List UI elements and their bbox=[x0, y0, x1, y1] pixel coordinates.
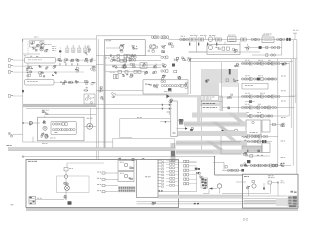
mic connector stub bbox=[11, 135, 13, 137]
audio IC box bbox=[246, 120, 261, 135]
wire stub row1 bbox=[13, 59, 25, 61]
input stub row4 bbox=[97, 189, 99, 192]
filter FL5 bbox=[64, 80, 66, 82]
wire x-long bbox=[177, 135, 222, 137]
frame line 2 bbox=[243, 195, 288, 197]
row71 cluster b bbox=[154, 70, 156, 73]
wire after box2 bbox=[54, 81, 88, 83]
row71 rect pair bbox=[134, 70, 137, 73]
label bbox=[110, 71, 112, 74]
vertical join x222 bbox=[221, 97, 223, 111]
stub bbox=[283, 122, 284, 125]
supply band left bbox=[23, 104, 97, 107]
tuned pair 2nd bbox=[276, 38, 278, 40]
wire q41 chain bbox=[65, 171, 67, 175]
mute feed elbow bbox=[213, 161, 224, 163]
sq box bbox=[84, 94, 95, 104]
resistor bbox=[222, 47, 225, 50]
components row 5 bbox=[241, 115, 243, 117]
connector stub P1 bbox=[8, 59, 10, 62]
det cluster e bbox=[94, 81, 95, 84]
mid cluster x85 bbox=[86, 53, 87, 56]
buffer cluster in box bbox=[154, 85, 156, 87]
transistor Q1 mixer bbox=[120, 46, 124, 50]
filter FL4 bbox=[77, 59, 79, 61]
wire ctrl a bbox=[23, 141, 113, 143]
tick above IC bbox=[169, 111, 171, 115]
arrow wire out of IC bbox=[177, 128, 187, 130]
filter FL1 bbox=[58, 59, 60, 61]
box label bbox=[106, 39, 108, 42]
wire reg out bbox=[270, 124, 280, 126]
supply line B bbox=[137, 203, 299, 205]
vco chain row1 bbox=[52, 123, 54, 125]
mixer cluster mid bbox=[229, 97, 231, 98]
vertical col right bbox=[238, 83, 240, 116]
left col row2 bbox=[162, 65, 164, 68]
trimmer pair bbox=[114, 74, 116, 79]
gray block bbox=[276, 198, 292, 206]
components row 1 bbox=[241, 62, 243, 64]
filter FL2 bbox=[66, 59, 67, 61]
resistor R3 bbox=[117, 55, 119, 58]
IF takeoff cluster bbox=[114, 95, 115, 98]
cluster mid upper bbox=[236, 63, 238, 65]
coax jack J1 bbox=[154, 35, 157, 38]
row3 labels bbox=[245, 92, 247, 95]
row1 labels bbox=[245, 59, 247, 62]
wire mixer out bbox=[96, 55, 161, 57]
row65 cluster c bbox=[133, 64, 135, 67]
label under box bbox=[50, 137, 53, 140]
cluster row2 a bbox=[27, 75, 28, 76]
vertical bus pair a bbox=[95, 36, 97, 160]
bias cluster bbox=[66, 183, 68, 185]
resistor R24 bbox=[125, 70, 128, 73]
filter FL7 bbox=[75, 80, 76, 81]
dark block right of IC bbox=[179, 119, 183, 125]
cap on mute row bbox=[225, 166, 227, 169]
shield label box bbox=[242, 83, 268, 89]
RX unit box left edge bbox=[189, 58, 191, 95]
filter L3 bbox=[215, 38, 218, 41]
left col row3 bbox=[161, 70, 163, 72]
wire into IC left bbox=[160, 121, 171, 123]
label above block bbox=[34, 36, 37, 39]
frame label CONTROL UNIT bbox=[28, 160, 31, 163]
hatch filter box bbox=[242, 146, 262, 153]
antenna terminal bbox=[294, 33, 296, 39]
stub labels right column bbox=[281, 75, 283, 78]
resistor bbox=[266, 46, 268, 49]
routing box above band bbox=[113, 137, 175, 139]
sub box outline bbox=[30, 41, 45, 47]
wire into frame bbox=[222, 193, 270, 195]
row58 cluster b bbox=[176, 60, 178, 62]
filter L4 bbox=[241, 38, 243, 41]
highlight diagonal D3 bbox=[227, 113, 244, 122]
wire lower bbox=[222, 107, 241, 109]
wire row 4 bbox=[241, 107, 295, 109]
wire end tick bbox=[21, 39, 23, 42]
IF transformer T1 bbox=[66, 48, 69, 52]
rect row80 bbox=[226, 79, 229, 81]
wire 4th row bbox=[115, 67, 161, 69]
wire sub chain 3 bbox=[252, 54, 282, 56]
wire 2nd row bbox=[112, 60, 161, 62]
wire elbow to final frame bbox=[214, 157, 216, 175]
wire audio bottom chain bbox=[240, 165, 291, 167]
wire vco out bbox=[84, 125, 96, 127]
cluster row1 c bbox=[46, 67, 48, 69]
row65 cluster a bbox=[115, 66, 117, 68]
row75 cluster a bbox=[126, 73, 128, 76]
wire mute row bbox=[222, 169, 243, 171]
wire entering frame bbox=[236, 181, 246, 183]
left col row5 bbox=[161, 80, 163, 82]
resistor R23 bbox=[118, 70, 122, 73]
left col row4 bbox=[162, 74, 164, 77]
vertical col left bbox=[201, 100, 203, 150]
filter cluster in box bbox=[134, 47, 136, 50]
wire drop x240 bbox=[239, 42, 241, 45]
supply line A bbox=[137, 201, 299, 203]
wire row 3 bbox=[241, 96, 295, 98]
bus wire B1 bbox=[288, 62, 290, 116]
mid arrow cluster bbox=[172, 64, 175, 67]
junction dot bbox=[214, 156, 215, 157]
bias resistor stub 1 bbox=[189, 43, 190, 46]
highlight diagonal D2 bbox=[205, 141, 224, 150]
RX mode dark label bbox=[229, 69, 231, 74]
ground marks bbox=[24, 54, 26, 57]
dark cap in box bbox=[168, 88, 171, 91]
pin label column bbox=[158, 159, 160, 162]
test point cluster row1 bbox=[282, 64, 284, 65]
input stub row3 bbox=[97, 183, 99, 186]
amp cluster bbox=[85, 90, 87, 92]
transistor Q61 bbox=[252, 184, 256, 188]
pairs on mute row bbox=[227, 169, 229, 171]
arrow wire bbox=[209, 188, 217, 190]
svg-text:2-2: 2-2 bbox=[243, 218, 248, 222]
ground symbol marks bbox=[11, 203, 14, 206]
volume cluster bbox=[65, 194, 66, 197]
buffer transistor big Q32 bbox=[87, 123, 93, 129]
highlight col down bbox=[219, 95, 222, 111]
circle on mute row bbox=[236, 169, 239, 172]
highlight diagonal D1 bbox=[211, 122, 230, 132]
label bbox=[52, 45, 55, 48]
capacitor C11 bbox=[33, 48, 35, 51]
bottom gray band bbox=[26, 209, 298, 211]
left col row1 bbox=[161, 56, 163, 58]
bus wire B5 bbox=[296, 40, 298, 174]
gray bar with dark blob bbox=[171, 143, 176, 162]
wire dashed vertical 2 bbox=[59, 48, 61, 58]
route end marks bbox=[159, 190, 161, 191]
final unit frame bbox=[243, 174, 299, 208]
oscillator box Y1 bbox=[143, 80, 188, 94]
input stub row2 bbox=[97, 177, 99, 180]
vertical bus pair b bbox=[97, 39, 99, 160]
wire stub row3 bbox=[13, 71, 26, 73]
frame line 3 bbox=[243, 198, 288, 200]
wire row2 long bbox=[26, 65, 97, 67]
highlight band B1 bbox=[192, 113, 247, 118]
cluster below chain start bbox=[170, 43, 172, 45]
osc cluster bbox=[199, 176, 201, 178]
wire IF in b bbox=[26, 108, 172, 110]
cluster after arrow bbox=[190, 128, 192, 131]
row5 labels bbox=[246, 111, 249, 114]
cluster lower bbox=[228, 107, 230, 110]
reg box bbox=[262, 120, 270, 132]
row58 cluster a bbox=[111, 60, 113, 62]
bus elbow tick bbox=[289, 95, 297, 97]
wire RF chain bbox=[168, 39, 296, 41]
highlight col v1 bbox=[197, 95, 200, 122]
band corner marks bbox=[160, 196, 162, 198]
bias tick 2 bbox=[205, 36, 207, 40]
xtal osc box B bbox=[118, 172, 134, 182]
wire IF amp row 1 bbox=[241, 63, 289, 65]
wire mic in bbox=[23, 122, 40, 124]
crystal X2 bbox=[259, 46, 262, 49]
dark cap under mixer bbox=[41, 135, 42, 137]
arrow mark bbox=[241, 169, 244, 172]
resistor R13 bbox=[45, 50, 47, 52]
audio amp dark stack bbox=[202, 179, 204, 181]
wire keyboard top bbox=[159, 162, 197, 164]
driver box bbox=[262, 143, 270, 153]
wire inter-box vertical bbox=[27, 63, 29, 80]
wire row 7 bbox=[241, 141, 272, 143]
transformer label bbox=[37, 197, 39, 200]
wire sub chain 2 bbox=[244, 47, 282, 49]
shield box 2nd filter bank bbox=[25, 80, 55, 86]
wire vco top bbox=[45, 114, 97, 116]
crystal filter XF2 bbox=[286, 38, 288, 41]
wire bus elbow bbox=[96, 64, 103, 66]
bias resistor stub 2 bbox=[198, 43, 199, 46]
components row 4 bbox=[241, 106, 243, 108]
highlight band IF path bbox=[201, 69, 238, 83]
crystal filter FL22 labeled bbox=[262, 37, 274, 42]
frame interior verticals bbox=[248, 190, 250, 197]
transistor under box Q33 bbox=[45, 133, 47, 136]
components row 7 bbox=[245, 140, 247, 142]
IF transformer T3 bbox=[78, 48, 81, 52]
bandpass filter FL21 bbox=[228, 37, 237, 42]
audio transformer T41 bbox=[29, 197, 36, 205]
transistor Q11 bbox=[40, 48, 43, 51]
wire 5th row bbox=[106, 71, 149, 73]
filter FL6 bbox=[69, 81, 70, 82]
highlight band B5 bbox=[176, 150, 247, 155]
input cluster row7 bbox=[244, 140, 246, 142]
comp with wire bbox=[268, 181, 272, 184]
dark tick on left bus bbox=[22, 90, 24, 92]
attenuator pad bbox=[180, 38, 182, 40]
wire in box bbox=[106, 47, 119, 49]
wire row3 long bbox=[26, 71, 85, 73]
connector top bits bbox=[291, 191, 294, 193]
bias resistor stub 4 bbox=[216, 43, 217, 46]
arrowhead band bbox=[166, 94, 169, 98]
elbow bbox=[208, 189, 210, 194]
resistor R6 bbox=[124, 58, 126, 61]
components row 3 bbox=[241, 95, 243, 97]
wire mid row bbox=[218, 116, 241, 118]
det cluster a bbox=[86, 58, 88, 60]
cap C7 bbox=[129, 57, 131, 60]
det cluster d bbox=[87, 81, 89, 84]
label left edge bbox=[7, 144, 10, 147]
cluster row2 c bbox=[52, 74, 54, 77]
dark cap row3 bbox=[249, 100, 252, 102]
cap C61 bbox=[252, 180, 255, 182]
cluster right of pll bbox=[248, 47, 249, 50]
mid rect pair bbox=[174, 70, 177, 73]
text row 2 bbox=[203, 106, 206, 109]
highlight band bottom mid bbox=[159, 195, 243, 199]
row75 cluster b bbox=[130, 74, 133, 75]
osc cluster Y2 bbox=[46, 114, 48, 115]
connector stub P2 bbox=[8, 65, 10, 68]
power connector block bbox=[288, 196, 298, 209]
transistor Q21 RF amp bbox=[208, 37, 213, 42]
dark filter row7 bbox=[262, 140, 264, 143]
wire ctrl b bbox=[23, 156, 215, 158]
wire loop bottom bbox=[120, 137, 132, 139]
dark electrolytic bbox=[68, 201, 72, 204]
dark blob in gray bbox=[207, 79, 209, 81]
row65 box cluster bbox=[140, 63, 147, 69]
components audio chain bbox=[240, 164, 242, 166]
tuned chain in osc box bbox=[161, 84, 163, 86]
frame label bbox=[244, 175, 247, 178]
crystal cluster dark bbox=[195, 168, 198, 170]
wire filters row bbox=[56, 59, 97, 61]
tuned pair bbox=[131, 59, 133, 61]
bias resistor stub 3 bbox=[207, 43, 208, 46]
input stub row1 bbox=[97, 171, 99, 174]
cluster row1 b bbox=[39, 64, 40, 67]
highlight band B4 bbox=[176, 141, 247, 146]
wire stub row2 bbox=[13, 65, 26, 67]
tuned pair mixer in bbox=[251, 38, 253, 40]
transistor Q51 bbox=[217, 184, 221, 188]
pin tick bbox=[110, 54, 111, 57]
vco inner box bbox=[51, 121, 76, 134]
wire IF out lower bbox=[190, 61, 292, 63]
wire bbox=[23, 53, 40, 55]
vertical x221 bbox=[220, 131, 222, 140]
wire row 5 bbox=[241, 115, 289, 117]
routing loop bbox=[57, 176, 90, 193]
control unit frame bbox=[26, 160, 179, 208]
bias tick 1 bbox=[196, 36, 198, 40]
filter FL3 bbox=[72, 58, 74, 61]
cluster row1 d bbox=[54, 64, 56, 67]
wire down left bbox=[22, 105, 24, 142]
wire top bus of RX front-end bbox=[23, 38, 97, 40]
cluster row80 bbox=[235, 81, 236, 82]
wire speaker feed bbox=[36, 199, 65, 201]
bus wire B3 bbox=[292, 40, 294, 166]
below-box label bbox=[105, 57, 107, 60]
wire row7 left ext bbox=[221, 141, 241, 143]
capacitor C12 bbox=[35, 48, 37, 51]
speaker SP1 bbox=[65, 186, 70, 191]
highlight band h1 bbox=[169, 95, 198, 97]
marks on supply bbox=[194, 203, 196, 204]
varactor cluster bbox=[234, 49, 236, 50]
label row bbox=[28, 58, 31, 61]
aux cluster left column a bbox=[162, 45, 164, 47]
value label bbox=[44, 43, 47, 46]
wire in band B4 bbox=[176, 142, 240, 144]
pairc on mixer out bbox=[131, 56, 133, 58]
tx label bbox=[55, 131, 58, 134]
resistor array hatch bbox=[118, 186, 136, 192]
wire drop x225 bbox=[224, 42, 226, 45]
wire loop top bbox=[120, 118, 170, 120]
comps on frame top bbox=[119, 157, 120, 160]
row65 cluster d bbox=[155, 63, 158, 66]
mixer cluster row1 a bbox=[26, 69, 28, 71]
filter L2 bbox=[198, 38, 201, 41]
resistor bbox=[266, 54, 268, 57]
tall IC IF subsystem bbox=[171, 101, 177, 137]
key matrix column rows bbox=[184, 160, 186, 162]
resistor R4 bbox=[124, 54, 127, 58]
transistor Q22 osc bbox=[209, 46, 213, 50]
resistor R21 bbox=[120, 59, 123, 62]
highlight band B2 bbox=[184, 122, 247, 127]
wire in band B5 bbox=[176, 151, 213, 153]
det cluster b bbox=[91, 58, 93, 60]
pin filter column bbox=[170, 160, 172, 162]
wire vert right of vco bbox=[89, 108, 91, 126]
gray supply bus vertical bbox=[104, 56, 106, 148]
highlight diagonal D15 bbox=[220, 131, 237, 141]
filter stub ticks bbox=[59, 63, 62, 65]
connector stub P3 bbox=[8, 71, 10, 74]
wire 3rd row bbox=[106, 64, 162, 66]
detector cluster bbox=[100, 97, 102, 99]
wire under boxes bbox=[245, 155, 270, 157]
cluster right of mixer box bbox=[150, 45, 152, 47]
filter L1 bbox=[189, 38, 192, 41]
wire pll feed bbox=[189, 51, 208, 53]
row65 cluster b bbox=[123, 66, 126, 69]
shield box ceramic filter bank bbox=[25, 57, 56, 63]
frame side label marks bbox=[281, 180, 284, 183]
aux cluster left column b bbox=[161, 49, 163, 52]
wire row 6 bbox=[241, 136, 278, 138]
wire bus to osc box bbox=[96, 89, 143, 91]
comp row8 bbox=[244, 152, 246, 154]
osc cluster in box bbox=[145, 83, 146, 84]
label row above chain bbox=[190, 34, 193, 37]
components row 2 bbox=[241, 78, 243, 80]
wire vertical join bbox=[281, 40, 283, 56]
wire IF in a bbox=[96, 104, 172, 106]
resistor R5 bbox=[117, 58, 119, 61]
tuned pair bbox=[271, 54, 273, 56]
